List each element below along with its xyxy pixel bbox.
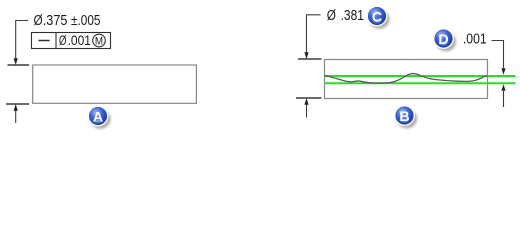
svg-text:A: A [93, 109, 103, 125]
svg-text:Ø: Ø [59, 33, 67, 48]
svg-text:D: D [438, 32, 448, 48]
svg-text:Ø: Ø [327, 8, 336, 24]
svg-text:±.005: ±.005 [71, 13, 101, 29]
svg-text:Ø: Ø [34, 13, 43, 29]
svg-text:C: C [372, 9, 382, 25]
svg-text:.375: .375 [43, 13, 68, 29]
svg-text:.001: .001 [463, 32, 487, 48]
svg-text:.001: .001 [68, 33, 91, 48]
svg-text:.381: .381 [341, 8, 364, 24]
svg-text:B: B [399, 109, 409, 125]
svg-text:M: M [95, 35, 103, 47]
